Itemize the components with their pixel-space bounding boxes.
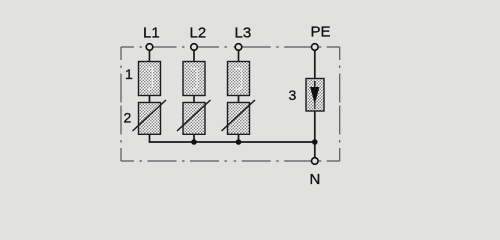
svg-text:L1: L1 <box>143 25 160 42</box>
svg-text:L2: L2 <box>190 25 207 42</box>
svg-text:2: 2 <box>124 109 132 125</box>
svg-text:N: N <box>310 171 321 188</box>
svg-text:3: 3 <box>289 87 297 103</box>
svg-text:L3: L3 <box>235 25 252 42</box>
svg-text:1: 1 <box>125 66 133 82</box>
svg-text:PE: PE <box>311 24 331 41</box>
